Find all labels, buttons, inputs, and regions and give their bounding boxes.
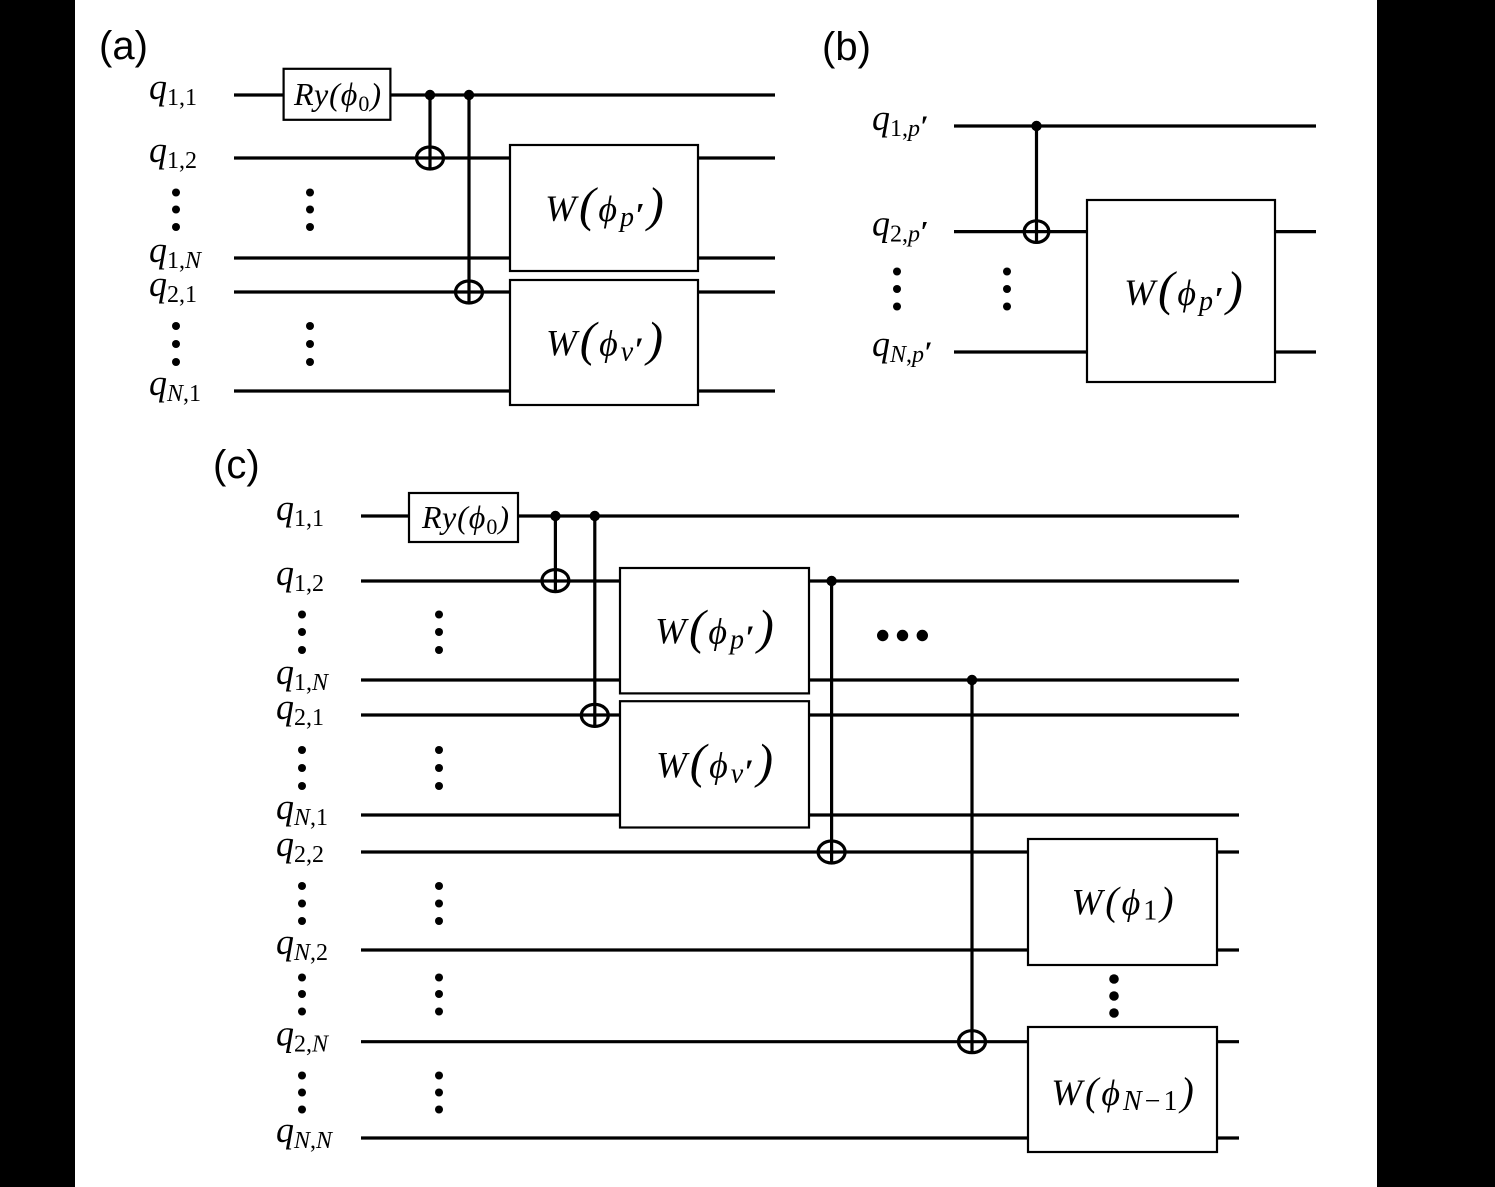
CNOT vertical line 2 (a) — [467, 95, 470, 304]
wire q1,1 (c) — [361, 514, 1239, 517]
wire q1,N (c) — [361, 678, 1239, 681]
wire qN,2 (c) — [361, 948, 1239, 951]
node q2,1 label (c) — [276, 687, 324, 731]
ellipsis dots label col between q1,2 and q1,N (c) — [298, 611, 306, 655]
CNOT vertical line 1 (c) — [554, 516, 557, 593]
wire q1,2 (a) — [234, 156, 775, 159]
CNOT control dot (b) — [1031, 121, 1041, 131]
ellipsis dots circuit col between q2,2 and qN,2 (c) — [435, 882, 443, 925]
gate Ry(phi0) box (c) — [409, 493, 518, 542]
panel label (b) — [822, 25, 871, 69]
svg-text:(b): (b) — [822, 25, 871, 69]
node qN,1 label (c) — [276, 787, 328, 831]
gate Ry(phi0) box (a) — [284, 69, 391, 120]
panel label (a) — [99, 24, 148, 68]
wire qN,1 (c) — [361, 813, 1239, 816]
node qN,N label (c) — [276, 1110, 334, 1154]
node q2,1 label (a) — [149, 264, 197, 308]
ellipsis dots label col between q2,2 and qN,2 (c) — [298, 882, 306, 925]
wire qN,N (c) — [361, 1136, 1239, 1139]
CNOT control dot 1 (a) — [425, 90, 435, 100]
gate W(phi_p') box (c) — [620, 568, 809, 693]
ellipsis dots circuit col between q2,N and qN,N (c) — [435, 1072, 443, 1114]
gate W(phi_v') box (a) — [510, 280, 698, 405]
CNOT target on q2,1 (c) — [581, 704, 608, 726]
node qN,1 label (a) — [149, 363, 201, 407]
svg-text:W(ϕ1): W(ϕ1) — [1071, 879, 1176, 927]
svg-text:(c): (c) — [213, 443, 260, 487]
node qN,p' label (b) — [872, 324, 932, 369]
node qN,2 label (c) — [276, 922, 328, 966]
CNOT target on q2,2 (c) — [818, 841, 845, 863]
svg-text:(a): (a) — [99, 24, 148, 68]
node q2,2 label (c) — [276, 824, 324, 868]
CNOT target on q2,p' (b) — [1024, 221, 1049, 243]
gate W(phi_p') box (b) — [1087, 200, 1275, 382]
ellipsis dots circuit column upper (a) — [306, 189, 314, 232]
node q1,2 label (a) — [149, 130, 197, 174]
node q1,p' label (b) — [872, 98, 928, 143]
CNOT vertical line 1 (a) — [428, 95, 431, 170]
node q2,p' label (b) — [872, 204, 928, 249]
ellipsis dots circuit col between q2,1 and qN,1 (c) — [435, 746, 443, 790]
node q1,N label (a) — [149, 230, 203, 274]
wire q2,p' (b) — [954, 230, 1316, 233]
wire q1,p' (b) — [954, 124, 1316, 127]
CNOT control dot 4 (c) — [967, 675, 977, 685]
gate W(phi_N-1) box (c) — [1028, 1027, 1217, 1152]
node q1,1 label (c) — [276, 488, 324, 532]
gate W(phi_1) box (c) — [1028, 839, 1217, 965]
wire q1,N (a) — [234, 256, 775, 259]
CNOT control dot 2 (a) — [464, 90, 474, 100]
ellipsis dots circuit column lower (a) — [306, 322, 314, 366]
node q1,2 label (c) — [276, 553, 324, 597]
ellipsis dots label column (b) — [893, 268, 901, 311]
gate W(phi_v') box (c) — [620, 701, 809, 827]
CNOT target on q2,1 (a) — [456, 281, 483, 303]
wire qN,p' (b) — [954, 350, 1316, 353]
CNOT target on q1,2 (c) — [542, 570, 569, 592]
CNOT control dot 2 (c) — [590, 511, 600, 521]
ellipsis dots label col between q2,N and qN,N (c) — [298, 1072, 306, 1114]
CNOT vertical line (b) — [1035, 126, 1038, 244]
CNOT control dot 3 (c) — [826, 576, 836, 586]
CNOT vertical line 4 (c) — [970, 680, 973, 1054]
gate W(phi_p') box (a) — [510, 145, 698, 271]
ellipsis dots label column lower (a) — [172, 322, 180, 366]
ellipsis dots label column upper (a) — [172, 189, 180, 232]
node q1,1 label (a) — [149, 67, 197, 111]
node q2,N label (c) — [276, 1014, 330, 1058]
ellipsis dots circuit col between q1,2 and q1,N (c) — [435, 611, 443, 655]
horizontal ellipsis dots mid circuit (c) — [877, 630, 928, 641]
node q1,N label (c) — [276, 652, 330, 696]
CNOT vertical line 2 (c) — [593, 516, 596, 728]
ellipsis dots label col between qN,2 and q2,N (c) — [298, 974, 306, 1016]
wire q2,N (c) — [361, 1040, 1239, 1043]
vertical ellipsis dots between W boxes (c) — [1109, 974, 1119, 1018]
wire qN,1 (a) — [234, 389, 775, 392]
wire q1,2 (c) — [361, 579, 1239, 582]
CNOT target on q1,2 (a) — [417, 147, 444, 169]
ellipsis dots circuit col between qN,2 and q2,N (c) — [435, 974, 443, 1016]
CNOT control dot 1 (c) — [550, 511, 560, 521]
wire q2,2 (c) — [361, 850, 1239, 853]
CNOT vertical line 3 (c) — [830, 581, 833, 864]
CNOT target on q2,N (c) — [959, 1031, 986, 1053]
ellipsis dots circuit column (b) — [1003, 268, 1011, 311]
wire q2,1 (c) — [361, 713, 1239, 716]
ellipsis dots label col between q2,1 and qN,1 (c) — [298, 746, 306, 790]
panel label (c) — [213, 443, 260, 487]
wire q2,1 (a) — [234, 290, 775, 293]
wire q1,1 (a) — [234, 93, 775, 96]
